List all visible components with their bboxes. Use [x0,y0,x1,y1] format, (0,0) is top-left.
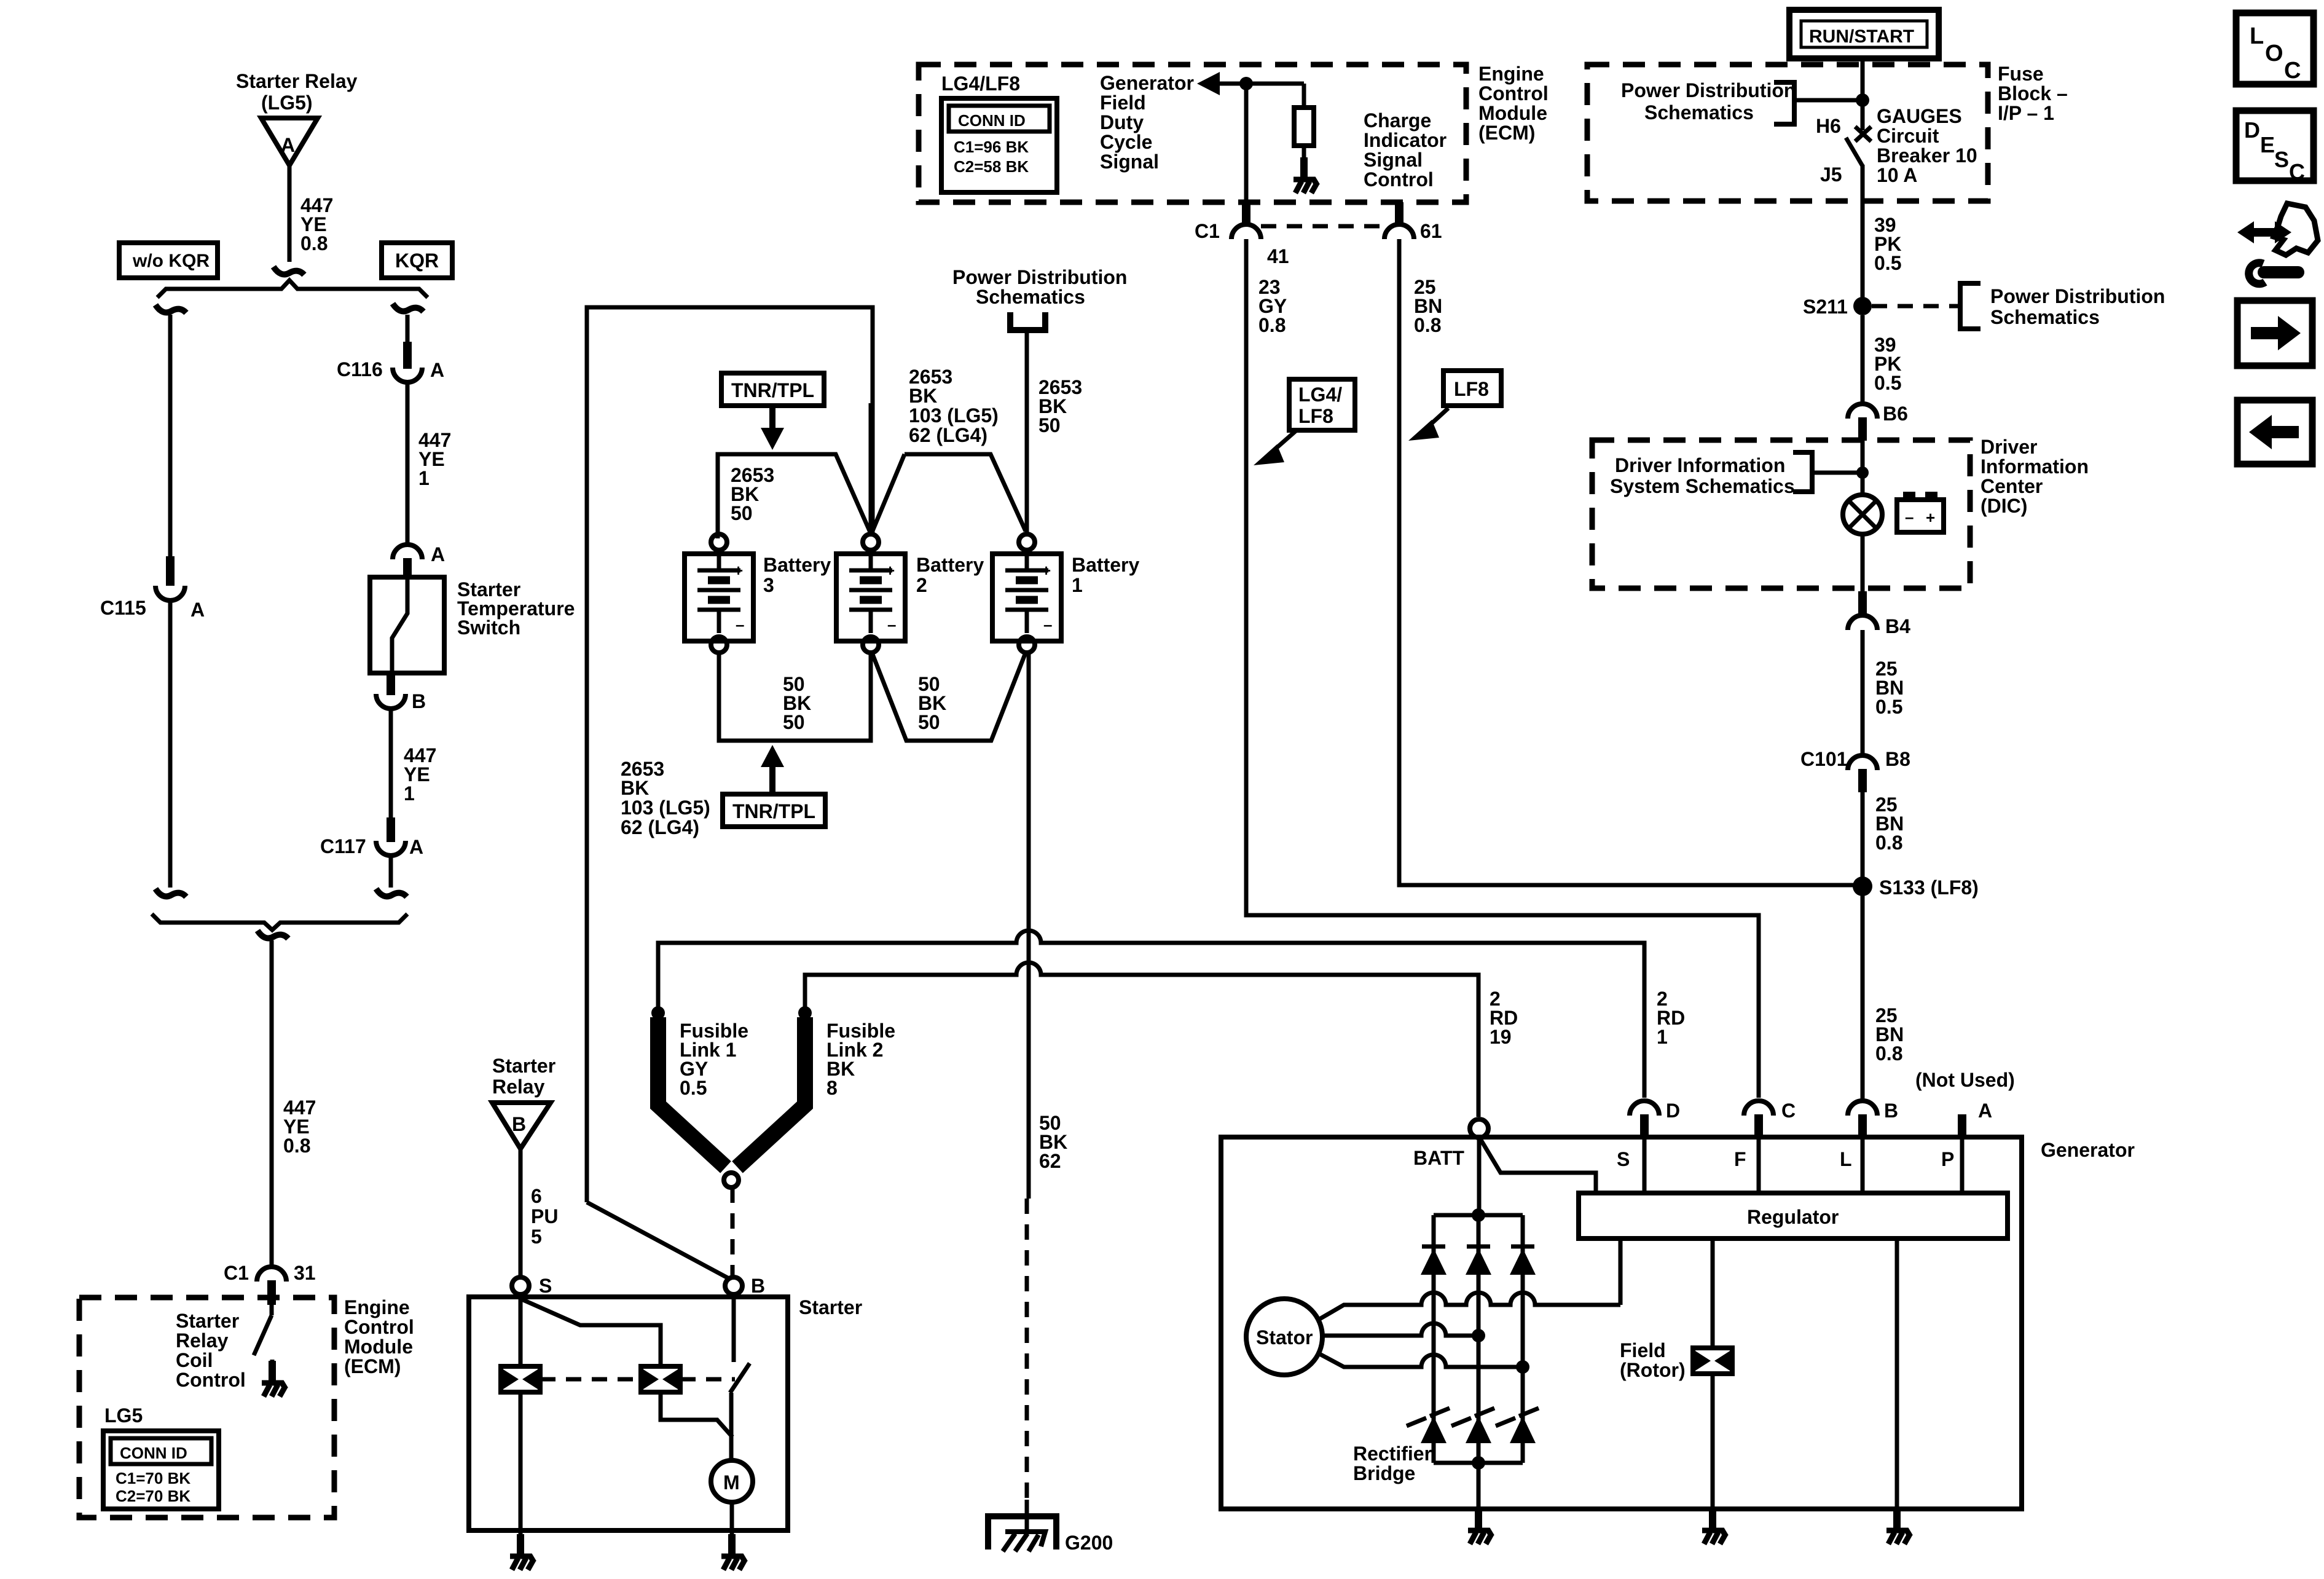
svg-text:TNR/TPL: TNR/TPL [732,800,815,822]
svg-text:Field: Field [1100,92,1146,114]
svg-text:0.8: 0.8 [1875,1042,1902,1065]
bridge leg 3 [1521,1215,1525,1463]
wire squiggle right branch start [393,304,423,312]
connector 61 arc [1384,224,1414,239]
wire BATT into generator [1477,1138,1482,1215]
connector C1 stub (pin 41) [1242,202,1250,224]
arrow to generator field signal [1197,72,1220,95]
svg-text:C1=70 BK: C1=70 BK [116,1469,190,1487]
wire diagonal to starter B [587,1202,729,1278]
svg-text:Cycle: Cycle [1100,131,1152,153]
svg-text:103 (LG5): 103 (LG5) [621,797,710,819]
svg-text:8: 8 [826,1077,838,1099]
LOC icon box [2236,13,2314,84]
svg-text:(ECM): (ECM) [1478,122,1535,144]
dashed linkage between coils [540,1377,641,1382]
rectifier bridge bottom bus [1434,1461,1523,1465]
svg-text:Fuse: Fuse [1998,63,2044,85]
bracket DIC [1793,452,1812,492]
junction dot bridge bottom [1472,1456,1485,1470]
wire below hold-in coil to ground [519,1392,523,1543]
svg-text:C: C [2289,159,2305,184]
battery 3 [685,534,753,653]
splice S211 [1853,297,1872,315]
svg-text:0.8: 0.8 [283,1135,310,1157]
wire S211 down [1861,315,1865,403]
fusible link junction circle [724,1173,739,1187]
svg-text:Schematics: Schematics [976,286,1085,308]
zener bottom 1 [1407,1408,1450,1443]
svg-text:50: 50 [731,502,753,524]
svg-text:Starter: Starter [799,1296,862,1318]
connector B6 arc [1848,404,1877,419]
svg-text:C2=70 BK: C2=70 BK [116,1487,190,1505]
circuit breaker X contact [1855,127,1871,141]
svg-text:L: L [1840,1148,1852,1170]
svg-text:G200: G200 [1065,1532,1113,1554]
fusible link 2 [737,1017,805,1167]
svg-text:S: S [539,1275,552,1297]
ground (field) [1702,1508,1726,1544]
svg-text:D: D [1666,1100,1680,1122]
hold-in coil (starter) [501,1366,540,1392]
connector B6 stub [1858,417,1867,441]
wire left branch (w/o KQR) down [168,315,173,578]
svg-text:62: 62 [1039,1150,1061,1172]
svg-text:(LG5): (LG5) [261,92,313,114]
svg-text:(DIC): (DIC) [1981,495,2027,517]
connector B stub below switch [387,673,395,695]
svg-text:+: + [1042,561,1051,580]
svg-text:Power Distribution: Power Distribution [1990,285,2165,307]
svg-text:System Schematics: System Schematics [1610,475,1795,497]
svg-text:Block –: Block – [1998,82,2068,104]
connector B4 stub [1858,591,1867,615]
relay coil control switch wire [270,1305,274,1315]
svg-text:41: 41 [1267,245,1289,267]
connector C arc [1744,1101,1773,1116]
svg-text:B4: B4 [1885,615,1910,637]
wire squiggle below merge [257,931,288,939]
bracket power distribution right [1960,283,1981,329]
fuse block dashed box [1587,65,1988,201]
svg-text:S133 (LF8): S133 (LF8) [1879,876,1979,899]
hand and wrench icon: wrench [2264,266,2298,278]
svg-text:LG4/: LG4/ [1298,384,1342,406]
svg-text:CONN ID: CONN ID [958,111,1026,130]
wire battery2 minus diagonal to battery1 minus [872,653,1026,741]
svg-text:62 (LG4): 62 (LG4) [621,816,699,838]
svg-text:62 (LG4): 62 (LG4) [909,424,987,446]
svg-text:Battery: Battery [1072,554,1139,576]
wire 25 BN 0.5 [1861,630,1865,754]
svg-text:LF8: LF8 [1454,378,1489,400]
svg-text:Module: Module [1478,102,1547,124]
svg-text:–: – [1043,615,1052,634]
svg-text:Battery: Battery [763,554,831,576]
connector C117 stub [387,817,395,842]
stator phase 1 wire with hops [1317,1293,1620,1320]
wire below C117 [389,856,393,888]
svg-text:C1: C1 [224,1262,249,1284]
bridge to ground wire [1477,1463,1481,1509]
svg-text:+: + [885,561,895,580]
RUN/START box outer [1789,10,1939,58]
svg-text:Bridge: Bridge [1353,1462,1415,1484]
rectifier bridge top bus [1434,1213,1523,1218]
svg-text:(ECM): (ECM) [344,1355,401,1377]
svg-text:–: – [887,615,896,634]
connector C1 arc (ECM LG5) [257,1267,286,1282]
svg-text:H6: H6 [1816,115,1841,137]
svg-text:Stator: Stator [1256,1326,1313,1349]
connector 61 stub [1395,202,1403,224]
regulator box [1579,1193,2008,1238]
ground (ECM internal) [1294,157,1317,193]
svg-text:Signal: Signal [1364,149,1423,171]
svg-text:Center: Center [1981,475,2043,497]
svg-text:Field: Field [1620,1339,1666,1361]
svg-text:M: M [723,1471,740,1494]
svg-text:1: 1 [404,782,415,805]
wire contact to motor [729,1393,734,1460]
battery icon in DIC [1897,500,1944,532]
svg-text:C2=58 BK: C2=58 BK [954,157,1029,176]
wire 447 YE 0.8 down to ECM [270,940,274,1266]
svg-text:Control: Control [176,1369,246,1391]
stator phase 3 wire [1317,1353,1523,1367]
connector C115 cup [155,586,185,600]
svg-text:L: L [2250,23,2264,49]
field rotor coil [1693,1348,1732,1374]
tag box LG4/LF8 [1289,379,1355,430]
TNR/TPL tag lower [723,794,825,827]
wire right branch (KQR) down [406,315,410,343]
main wire H4 (to generator BATT) [805,963,1478,1117]
svg-text:50: 50 [783,711,805,733]
svg-text:2: 2 [916,574,927,596]
battery 1 [992,534,1061,653]
svg-text:LF8: LF8 [1298,405,1333,427]
junction dot fuse feed [1856,93,1869,107]
svg-text:KQR: KQR [395,250,439,272]
main wire H3 (to generator D) [658,931,1644,1098]
ECM LG4/LF8 dashed box [919,65,1466,202]
connector C101 stub [1858,769,1867,792]
svg-text:Switch: Switch [457,616,520,639]
terminal S circle [512,1277,529,1294]
connector C116 cup [393,368,422,382]
svg-text:A: A [1978,1100,1992,1122]
svg-text:+: + [1926,508,1935,527]
wire 50 BK 62 dashed to G200 [1025,1199,1029,1501]
hand and wrench icon: hand outline [2274,203,2318,255]
bracket under power distribution label [1010,312,1045,330]
hand and wrench icon: double arrow [2237,221,2291,243]
fusible link 2 dot [798,1006,812,1020]
wire down to C1 pin [1244,84,1249,203]
CONN ID header box [111,1438,211,1464]
terminal BATT circle [1470,1119,1488,1138]
switch blade inside temperature switch [392,579,407,673]
svg-text:50: 50 [918,711,940,733]
svg-text:Circuit: Circuit [1877,125,1939,147]
pull-in coil (starter) [641,1366,680,1392]
wire resistor to ground [1302,146,1306,176]
wire below pull-in coil with jog to motor line [661,1392,732,1437]
ground (rectifier bridge) [1468,1508,1492,1544]
svg-text:61: 61 [1420,220,1442,242]
wire 2653 BK 50 right vertical [1025,330,1029,532]
blade BATT to regulator S sense [1480,1139,1596,1193]
svg-text:C115: C115 [100,597,146,619]
wire squiggle left branch end [155,889,186,897]
svg-text:C: C [1781,1100,1796,1122]
zener bottom 3 [1496,1408,1539,1443]
svg-text:0.8: 0.8 [300,232,328,254]
svg-text:50: 50 [1038,414,1061,436]
option tag KQR [382,243,452,278]
starter relay triangle A [261,118,318,165]
resistor branch wire [1302,84,1306,108]
svg-text:CONN ID: CONN ID [120,1444,187,1462]
connector D stub [1640,1114,1649,1136]
ground (starter solenoid) [510,1534,534,1570]
svg-text:Driver: Driver [1981,436,2038,458]
wire bracket to junction [1794,98,1863,103]
svg-text:BATT: BATT [1413,1147,1464,1169]
wire B6 into DIC [1861,441,1865,495]
svg-text:Engine: Engine [1478,63,1544,85]
left arrow icon box [2237,400,2312,464]
junction dot DIC [1856,467,1869,479]
wire 2653 BK 103/62 center vertical [869,403,873,532]
option split brace upper [157,280,428,297]
svg-text:0.5: 0.5 [1874,252,1901,274]
wire motor to ground [730,1502,734,1543]
svg-text:1: 1 [1657,1026,1668,1048]
wire B terminal into starter [732,1294,736,1362]
ground (ECM relay control) [262,1361,286,1396]
wire 25 BN 0.8 to S133 [1861,792,1865,1101]
wire breaker down [1861,165,1865,297]
ground (regulator) [1886,1508,1910,1544]
wire bulb down to B4 [1861,534,1865,594]
connector A of temperature switch (arc) [393,545,422,559]
connector D arc [1630,1101,1659,1116]
tag box LF8 [1443,371,1501,406]
wire 6 PU 5 [519,1149,523,1278]
svg-text:Rectifier: Rectifier [1353,1443,1432,1465]
battery bottom bus wire [719,653,871,741]
ground stub inside ECM [270,1360,275,1377]
svg-text:S211: S211 [1803,296,1848,318]
svg-text:Starter Relay: Starter Relay [236,70,358,92]
svg-text:Engine: Engine [344,1296,410,1318]
connector A stub [403,558,412,579]
circuit breaker blade [1846,138,1863,166]
wire RUN/START down [1861,58,1865,130]
svg-text:–: – [1905,508,1914,526]
svg-text:A: A [409,836,423,858]
fusible link 1 dot [651,1006,665,1020]
connector B4 arc [1848,615,1877,630]
connector C101/B8 arc [1848,755,1877,770]
ground (starter motor) [721,1534,745,1570]
svg-text:Starter: Starter [492,1055,555,1077]
svg-text:6: 6 [531,1185,542,1207]
battery top bus wire [718,454,871,538]
ECM (LG5) dashed box [79,1297,334,1518]
stator circle [1246,1299,1322,1375]
svg-text:3: 3 [763,574,774,596]
dashed linkage to contact [680,1377,735,1382]
svg-text:0.8: 0.8 [1258,314,1286,336]
svg-text:–: – [736,615,744,634]
svg-text:1: 1 [1072,574,1083,596]
svg-text:C: C [2284,58,2301,84]
regulator leg to stator sense [1619,1238,1623,1305]
svg-text:Signal: Signal [1100,151,1159,173]
relay coil control switch blade [254,1315,272,1355]
svg-text:Control: Control [1478,82,1549,104]
arrow from TNR/TPL down [769,406,775,428]
svg-text:0.8: 0.8 [1875,832,1902,854]
svg-text:103 (LG5): 103 (LG5) [909,404,999,427]
wire S terminal into starter [519,1294,523,1367]
svg-text:5: 5 [531,1226,542,1248]
svg-text:C101: C101 [1800,748,1848,770]
generator box [1221,1137,2022,1509]
svg-text:F: F [1734,1148,1746,1170]
svg-text:RUN/START: RUN/START [1809,26,1914,47]
svg-text:A: A [431,543,445,565]
svg-text:E: E [2260,132,2275,157]
connector C115 stub [166,556,175,586]
battery 2 [836,534,905,653]
wire break squiggle above brace [273,267,304,275]
svg-text:Relay: Relay [176,1329,229,1352]
connector C117 cup [376,841,406,856]
dashed connector line C1 to 61 [1261,224,1384,229]
wire battery 1 minus down [1027,653,1031,1199]
DIC dashed box [1592,440,1970,588]
svg-text:Schematics: Schematics [1990,306,2100,328]
svg-text:Coil: Coil [176,1349,213,1371]
right arrow icon box [2237,301,2312,366]
svg-text:I/P – 1: I/P – 1 [1998,102,2054,124]
svg-text:C116: C116 [337,358,383,380]
svg-text:B: B [512,1113,526,1135]
wire 25 BN 0.8 from pin 61 [1399,239,1863,885]
svg-text:TNR/TPL: TNR/TPL [731,379,814,401]
svg-text:D: D [2244,117,2260,143]
fusible link 1 [658,1017,726,1167]
svg-text:Battery: Battery [916,554,984,576]
svg-text:Relay: Relay [492,1076,545,1098]
CONN ID table (LG4/LF8) [941,98,1057,192]
svg-text:LG4/LF8: LG4/LF8 [941,73,1020,95]
svg-text:Power Distribution: Power Distribution [1621,79,1796,101]
connector C1 stub [267,1280,276,1305]
svg-text:A: A [430,359,444,381]
junction dot phase 2 [1472,1329,1485,1342]
regulator ground leg [1895,1238,1899,1509]
svg-text:Module: Module [344,1336,413,1358]
svg-text:10 A: 10 A [1877,164,1917,186]
svg-text:Indicator: Indicator [1364,129,1447,151]
wire 23 GY 0.8 [1246,239,1759,1098]
svg-text:Schematics: Schematics [1644,101,1754,124]
zener bottom 2 [1451,1408,1494,1443]
starter box [469,1297,788,1530]
generator terminal wires S F L P [1644,1136,1962,1193]
svg-text:O: O [2265,41,2283,66]
svg-text:GAUGES: GAUGES [1877,105,1962,127]
svg-text:P: P [1941,1148,1954,1170]
stator phase 2 wire [1322,1323,1478,1336]
svg-text:1: 1 [418,467,430,489]
wire squiggle right branch end [376,889,407,897]
svg-text:B6: B6 [1883,403,1908,425]
bracket fuse block [1774,82,1794,124]
resistor (ECM pullup) [1294,108,1314,146]
svg-text:A: A [281,134,295,156]
dashed wire S211 to power distribution [1872,304,1959,309]
switch blade from S [520,1299,661,1367]
svg-text:LG5: LG5 [104,1404,143,1427]
diode top 3 [1510,1246,1536,1275]
ground G200 [988,1516,1056,1549]
bridge leg 1 [1432,1215,1436,1463]
connector C stub [1754,1114,1763,1136]
indicator bulb [1843,495,1882,534]
svg-text:0.8: 0.8 [1414,314,1441,336]
connector B stub [1858,1114,1867,1136]
starter relay triangle B [492,1103,551,1149]
option tag w/o KQR [119,243,218,278]
svg-text:Duty: Duty [1100,111,1144,133]
starter contact blade [730,1363,750,1393]
bridge leg 2 [1477,1215,1481,1463]
diode top 1 [1421,1246,1447,1275]
junction dot bridge top [1472,1208,1485,1222]
svg-text:Breaker 10: Breaker 10 [1877,144,1977,167]
svg-text:BK: BK [621,777,649,799]
svg-text:Control: Control [1364,168,1434,191]
connector B arc [1848,1101,1877,1116]
svg-text:Regulator: Regulator [1747,1206,1839,1228]
RUN/START box inner [1801,21,1927,47]
svg-text:S: S [1617,1148,1630,1170]
connector C1 arc (pin 41) [1231,224,1261,239]
arrow LF8 tag to wire [1427,408,1448,428]
svg-text:31: 31 [294,1262,316,1284]
svg-text:+: + [734,561,743,580]
motor M circle [711,1460,753,1502]
svg-text:BK: BK [909,385,937,407]
svg-text:Driver Information: Driver Information [1615,454,1785,476]
svg-text:Information: Information [1981,455,2089,478]
starter temperature switch box [370,577,444,673]
svg-text:Control: Control [344,1316,414,1338]
svg-text:C117: C117 [320,835,366,857]
option merge brace lower [152,914,407,930]
svg-text:C1: C1 [1195,220,1220,242]
svg-text:S: S [2274,147,2289,172]
diode top 2 [1466,1246,1491,1275]
wire 447 YE 0.8 from triangle A [288,165,292,262]
